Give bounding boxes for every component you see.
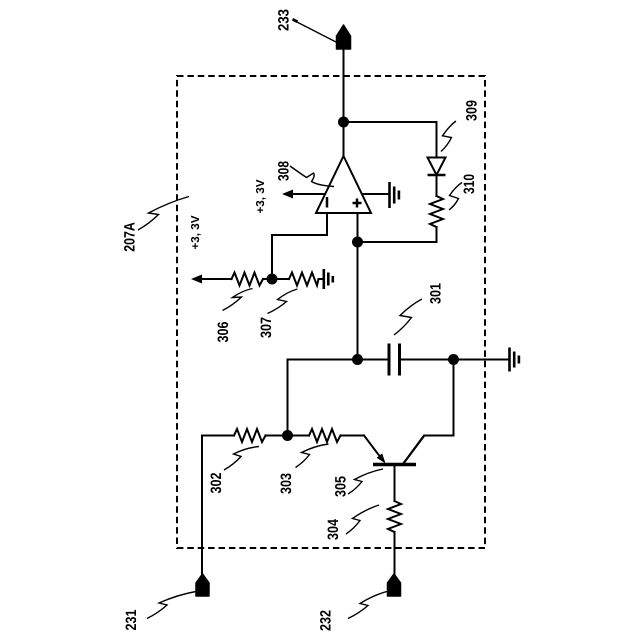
svg-text:307: 307 xyxy=(258,317,275,338)
svg-text:304: 304 xyxy=(325,518,342,540)
svg-text:310: 310 xyxy=(461,174,478,194)
svg-text:303: 303 xyxy=(278,473,295,494)
svg-text:305: 305 xyxy=(333,476,350,497)
svg-text:232: 232 xyxy=(318,610,335,631)
svg-text:302: 302 xyxy=(208,473,225,494)
svg-text:231: 231 xyxy=(123,610,140,631)
svg-text:233: 233 xyxy=(276,9,293,31)
svg-text:308: 308 xyxy=(276,161,293,181)
svg-text:+3, 3V: +3, 3V xyxy=(190,215,202,249)
svg-text:+3, 3V: +3, 3V xyxy=(255,179,267,213)
svg-text:207A: 207A xyxy=(122,222,139,252)
svg-text:309: 309 xyxy=(464,100,481,121)
svg-text:306: 306 xyxy=(215,322,232,343)
svg-text:301: 301 xyxy=(428,283,445,304)
